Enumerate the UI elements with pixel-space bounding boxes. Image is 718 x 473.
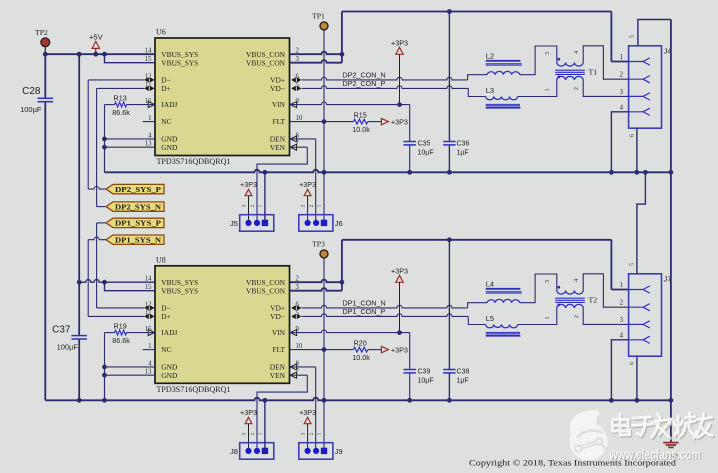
svg-text:TP2: TP2 <box>35 28 48 37</box>
wire C36 to ground bus <box>448 145 450 172</box>
pins J5 (1,2 round; 3 square) <box>245 220 251 226</box>
power +3P3 (FLT pull-up arrow) <box>381 118 388 124</box>
wire C38 to ground bus <box>448 373 450 400</box>
svg-text:R20: R20 <box>354 338 367 347</box>
wire +3P3 stem to VIN <box>399 54 401 104</box>
svg-text:10.0k: 10.0k <box>352 125 370 134</box>
wire DP2_CON_P net <box>302 86 469 89</box>
svg-text:C39: C39 <box>418 368 431 375</box>
svg-text:+3P3: +3P3 <box>391 345 408 354</box>
svg-text:2: 2 <box>620 300 624 307</box>
svg-text:+3P3: +3P3 <box>240 408 257 417</box>
pins J6 (1,2 round; 3 square) <box>305 220 311 226</box>
wire U8 pin15 riser <box>105 282 156 291</box>
wire J4 pin6 to ground bus <box>636 128 638 172</box>
wire FLT net <box>290 349 354 351</box>
svg-text:2: 2 <box>309 432 315 435</box>
connector J6 <box>299 215 333 232</box>
wire +5V drop to U8 VBUS_SYS <box>78 54 80 282</box>
wire ground bus to J jumper square pin (left) <box>264 172 266 223</box>
ground symbol GND <box>663 442 678 444</box>
node ground bus junctions <box>77 398 82 403</box>
svg-text:3: 3 <box>545 52 551 55</box>
port DP2_SYS_P <box>106 184 164 193</box>
svg-text:+3P3: +3P3 <box>299 408 316 417</box>
pin stub NC pin1 U8 <box>143 349 155 351</box>
wire +3P3 stem to J6 pin1 <box>307 196 309 223</box>
IC U8 TPD3S716QDBQRQ1 <box>155 266 290 384</box>
capacitor C28 100uF <box>44 54 46 98</box>
svg-text:NC: NC <box>161 345 171 354</box>
svg-text:GND: GND <box>161 143 178 152</box>
svg-text:R13: R13 <box>114 93 127 102</box>
wire VBUS_CON net pin2 U8 <box>290 280 342 283</box>
svg-text:VD−: VD− <box>270 84 285 93</box>
wire +3P3 stem to J9 pin1 <box>307 424 309 451</box>
svg-text:VBUS_SYS: VBUS_SYS <box>161 286 198 295</box>
wire TP1 stem / FLT tie <box>323 30 325 223</box>
wire L to transformer (bottom path) <box>518 80 557 97</box>
svg-text:VBUS_CON: VBUS_CON <box>246 58 286 67</box>
svg-text:2: 2 <box>574 315 580 318</box>
wire J7 pin6 to ground bus <box>636 356 638 400</box>
svg-text:4: 4 <box>148 360 152 367</box>
wire VBUS_CON drop to connector pin1 <box>610 12 612 62</box>
svg-text:U8: U8 <box>156 255 166 264</box>
node GND pin junctions <box>102 365 107 370</box>
svg-text:R15: R15 <box>354 110 367 119</box>
wire U6 D+ to port DP2_SYS_N <box>97 87 145 89</box>
capacitor C37 100uF <box>78 282 80 335</box>
wire T2 pin2 to connector pin3 <box>583 308 628 324</box>
wire J4 pin5 to far-right vertical <box>638 20 671 46</box>
svg-text:TPD3S716QDBQRQ1: TPD3S716QDBQRQ1 <box>157 385 231 394</box>
svg-text:C35: C35 <box>418 140 431 147</box>
node VIN junction <box>397 330 402 335</box>
wire DEN net to jumper middle pin <box>290 366 316 368</box>
svg-text:+3P3: +3P3 <box>299 180 316 189</box>
svg-text:4: 4 <box>574 279 580 282</box>
svg-text:GND: GND <box>161 371 178 380</box>
svg-text:DP1_SYS_N: DP1_SYS_N <box>115 236 162 245</box>
svg-text:2: 2 <box>620 72 624 79</box>
wire ground bus <box>45 398 671 401</box>
wire C36 riser to VBUS_CON <box>448 12 450 142</box>
svg-text:86.6k: 86.6k <box>112 336 130 345</box>
svg-text:IADJ: IADJ <box>161 100 177 109</box>
svg-text:J6: J6 <box>335 219 343 228</box>
transformer T1 <box>557 63 583 67</box>
port DP1_SYS_N <box>106 235 164 244</box>
wire VBUS_CON top run <box>342 239 612 241</box>
node U8 pin14 junctions <box>77 280 82 285</box>
wire GND pins U6 to ground bus <box>105 138 156 140</box>
node +5V rail junctions <box>43 52 48 57</box>
pin stub NC pin1 U6 <box>143 121 155 123</box>
port DP1_SYS_P <box>106 218 164 227</box>
wire +3P3 stem to J8 pin1 <box>248 424 250 451</box>
wire VBUS_CON riser <box>341 12 343 63</box>
svg-text:DP2_CON_P: DP2_CON_P <box>343 79 386 88</box>
svg-text:1: 1 <box>317 432 323 435</box>
svg-text:1: 1 <box>148 343 151 350</box>
node FLT junction / bus junction <box>322 347 327 352</box>
wire upper bus to J7 pin5 <box>637 172 646 273</box>
wire TP3 stem / FLT tie <box>323 258 325 451</box>
svg-text:10µF: 10µF <box>418 377 434 384</box>
svg-text:13: 13 <box>145 369 152 376</box>
capacitor C36 <box>443 141 455 143</box>
wire ground bus to J jumper square pin (left) <box>264 400 266 451</box>
wire T1 pin4 to connector pin2 <box>583 46 628 79</box>
svg-text:10.0k: 10.0k <box>352 353 370 362</box>
svg-text:DP2_SYS_P: DP2_SYS_P <box>115 185 162 194</box>
wire VBUS_CON riser <box>341 240 343 291</box>
wire C39 to ground bus <box>409 373 411 400</box>
svg-text:1: 1 <box>620 282 623 289</box>
wire C28 to bottom ground bus <box>44 102 46 401</box>
svg-text:4: 4 <box>148 132 152 139</box>
svg-text:C38: C38 <box>457 368 470 375</box>
svg-text:5: 5 <box>629 263 635 266</box>
svg-text:13: 13 <box>145 141 152 148</box>
watermark text (CJK glyph strokes) <box>614 414 714 439</box>
wire J7 pin4 to ground bus <box>611 340 628 401</box>
svg-text:4: 4 <box>620 332 624 339</box>
svg-text:FLT: FLT <box>273 117 286 126</box>
svg-text:D+: D+ <box>161 84 171 93</box>
svg-text:L3: L3 <box>486 86 494 95</box>
svg-text:J8: J8 <box>230 447 238 456</box>
svg-text:L2: L2 <box>486 52 494 61</box>
svg-text:+3P3: +3P3 <box>240 180 257 189</box>
svg-text:1: 1 <box>545 317 551 320</box>
svg-text:10µF: 10µF <box>418 149 434 156</box>
wire J4 pin4 to ground bus <box>611 112 628 173</box>
svg-text:C36: C36 <box>457 140 470 147</box>
node VIN junction <box>397 102 402 107</box>
capacitor C35 <box>404 141 416 143</box>
wire DP1_CON_N net <box>302 305 468 308</box>
wire TP2 stem <box>44 47 46 55</box>
pin arrows U8 (bidirectional D/VD, inputs IADJ VIN DEN VEN) <box>144 305 149 310</box>
svg-text:1: 1 <box>545 89 551 92</box>
svg-text:4: 4 <box>574 51 580 54</box>
connector J7 <box>629 274 662 356</box>
node ground bus junctions <box>263 170 268 175</box>
resistor R20 10.0k <box>353 347 367 352</box>
IC U6 TPD3S716QDBQRQ1 <box>155 38 290 156</box>
svg-text:6: 6 <box>629 134 635 137</box>
svg-text:3: 3 <box>300 432 306 435</box>
wire far-right vertical (shield/ground) <box>670 20 672 442</box>
svg-text:1: 1 <box>258 204 264 207</box>
svg-text:DP2_SYS_N: DP2_SYS_N <box>115 202 162 211</box>
svg-text:VEN: VEN <box>270 143 286 152</box>
port DP2_SYS_N <box>106 202 164 211</box>
svg-text:R19: R19 <box>114 321 127 330</box>
svg-text:www.elecfans.com: www.elecfans.com <box>609 447 701 463</box>
connector J8 <box>240 443 274 460</box>
wire U6 D- to port DP2_SYS_P <box>88 79 144 81</box>
wire VBUS_CON drop to connector pin1 <box>610 240 612 290</box>
power +3P3 (FLT pull-up arrow) <box>381 346 388 352</box>
svg-text:6: 6 <box>629 362 635 365</box>
wire VBUS_CON net pin3 U6 <box>290 60 342 63</box>
svg-text:TPD3S716QDBQRQ1: TPD3S716QDBQRQ1 <box>157 157 231 166</box>
resistor R15 10.0k <box>353 119 367 124</box>
svg-text:T1: T1 <box>589 68 598 77</box>
svg-text:10: 10 <box>296 115 303 122</box>
svg-text:C28: C28 <box>22 86 41 97</box>
wire L to transformer (top path) <box>520 274 557 303</box>
connector J5 <box>240 215 274 232</box>
pin arrows U6 (bidirectional D/VD, inputs IADJ VIN DEN VEN) <box>144 77 149 82</box>
wire VBUS_CON net pin2 U6 <box>290 52 342 55</box>
svg-text:1µF: 1µF <box>457 377 469 384</box>
svg-text:NC: NC <box>161 117 171 126</box>
svg-text:VEN: VEN <box>270 371 286 380</box>
svg-text:2: 2 <box>574 87 580 90</box>
wire VIN net <box>290 102 410 105</box>
watermark logo (elecfans) <box>570 410 608 460</box>
wire T1 pin2 to connector pin3 <box>583 80 628 96</box>
wire R19 to GND pins <box>104 333 106 367</box>
svg-text:1: 1 <box>258 432 264 435</box>
svg-text:1: 1 <box>317 204 323 207</box>
svg-text:L4: L4 <box>486 280 494 289</box>
svg-text:T2: T2 <box>589 296 598 305</box>
wire VEN net to jumper middle pin <box>290 374 308 376</box>
wire L to transformer (top path) <box>520 46 557 75</box>
wire port DP1_SYS_N to U8 D+ <box>88 237 106 240</box>
svg-text:+3P3: +3P3 <box>391 38 408 47</box>
pins J8 (1,2 round; 3 square) <box>245 448 251 454</box>
wire DEN net to jumper middle pin <box>290 138 316 140</box>
svg-text:2: 2 <box>309 204 315 207</box>
svg-text:1: 1 <box>148 115 151 122</box>
wire U8 pin14 VBUS_SYS <box>79 280 155 283</box>
wire T2 pin4 to connector pin2 <box>583 274 628 307</box>
resistor R13 86.6k (IADJ) <box>105 104 115 106</box>
wire C35 to ground bus <box>409 145 411 172</box>
node GND pin junctions <box>102 137 107 142</box>
wire R13 to GND pins <box>104 105 106 139</box>
svg-text:TP1: TP1 <box>312 12 325 21</box>
svg-text:3: 3 <box>241 432 247 435</box>
svg-text:VBUS_SYS: VBUS_SYS <box>161 58 198 67</box>
svg-text:4: 4 <box>620 104 624 111</box>
wire C38 riser to VBUS_CON <box>448 240 450 370</box>
svg-text:+3P3: +3P3 <box>391 117 408 126</box>
wire L to transformer (bottom path) <box>518 308 557 325</box>
svg-text:5: 5 <box>629 35 635 38</box>
wire +5V rail to U6 pin14 <box>45 53 155 55</box>
svg-text:IADJ: IADJ <box>161 328 177 337</box>
wire +3P3 stem to J5 pin1 <box>248 196 250 223</box>
svg-text:U6: U6 <box>156 28 166 37</box>
wire VBUS_CON top run <box>342 11 612 13</box>
wire port DP1_SYS_P to U8 D- <box>97 222 106 224</box>
svg-text:3: 3 <box>241 204 247 207</box>
svg-text:FLT: FLT <box>273 345 286 354</box>
capacitor C38 <box>443 369 455 371</box>
transformer T2 <box>557 291 583 295</box>
wire VBUS_CON net pin3 U8 <box>290 288 342 291</box>
node VBUS_CON junctions <box>340 52 345 57</box>
wire U6 pin15 riser <box>105 54 156 63</box>
capacitor C39 <box>404 369 416 371</box>
svg-text:VIN: VIN <box>272 100 286 109</box>
svg-text:3: 3 <box>300 204 306 207</box>
svg-text:VD−: VD− <box>270 312 285 321</box>
svg-text:VIN: VIN <box>272 328 286 337</box>
svg-text:100µF: 100µF <box>20 105 42 114</box>
svg-text:J5: J5 <box>230 219 238 228</box>
wire +3P3 stem to VIN <box>399 282 401 332</box>
pins J9 (1,2 round; 3 square) <box>305 448 311 454</box>
connector J9 <box>299 443 333 460</box>
svg-text:DP1_CON_P: DP1_CON_P <box>343 307 386 316</box>
svg-text:2: 2 <box>250 204 256 207</box>
svg-text:100µF: 100µF <box>57 342 79 351</box>
wire ground bus <box>105 170 671 173</box>
svg-text:3: 3 <box>620 317 624 324</box>
wire FLT net <box>290 121 354 123</box>
svg-text:3: 3 <box>620 89 624 96</box>
svg-text:+5V: +5V <box>89 32 103 41</box>
svg-text:86.6k: 86.6k <box>112 108 130 117</box>
svg-text:TP3: TP3 <box>312 240 325 249</box>
svg-text:VBUS_CON: VBUS_CON <box>246 286 286 295</box>
node FLT junction / bus junction <box>322 119 327 124</box>
svg-text:C37: C37 <box>52 325 71 336</box>
node VBUS_CON junctions <box>340 280 345 285</box>
wire DP1_CON_P net <box>302 314 469 317</box>
svg-text:1: 1 <box>620 54 623 61</box>
svg-text:J9: J9 <box>335 447 343 456</box>
svg-text:2: 2 <box>250 432 256 435</box>
svg-text:3: 3 <box>545 280 551 283</box>
svg-text:DP1_SYS_P: DP1_SYS_P <box>115 219 162 228</box>
resistor R19 86.6k (IADJ) <box>105 332 115 334</box>
svg-text:D+: D+ <box>161 312 171 321</box>
wire VEN net to jumper middle pin <box>290 146 308 148</box>
svg-text:L5: L5 <box>486 314 494 323</box>
connector J4 <box>629 46 662 128</box>
wire VIN net <box>290 330 410 333</box>
wire GND pins U8 to ground bus <box>105 366 156 368</box>
wire DP2_CON_N net <box>302 77 468 80</box>
svg-text:+3P3: +3P3 <box>391 266 408 275</box>
svg-text:10: 10 <box>296 343 303 350</box>
svg-text:1µF: 1µF <box>457 149 469 156</box>
